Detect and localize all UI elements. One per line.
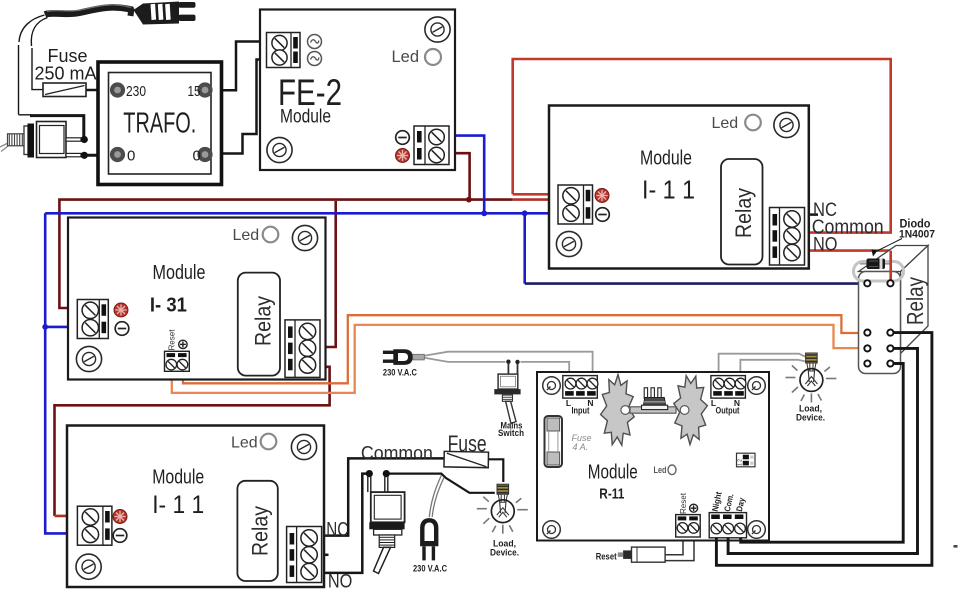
- svg-text:NC: NC: [326, 519, 348, 541]
- svg-text:250 mA.: 250 mA.: [35, 64, 102, 84]
- svg-text:4 A.: 4 A.: [573, 442, 589, 452]
- svg-text:230 V.A.C: 230 V.A.C: [383, 368, 417, 378]
- svg-text:Device.: Device.: [796, 413, 825, 423]
- svg-text:NO: NO: [328, 572, 353, 592]
- svg-text:Led: Led: [654, 465, 667, 475]
- svg-text:Led: Led: [233, 227, 260, 244]
- svg-text:TRAFO.: TRAFO.: [123, 108, 196, 140]
- svg-text:Module: Module: [280, 106, 331, 128]
- svg-text:L: L: [566, 398, 571, 408]
- svg-text:Common: Common: [361, 444, 433, 465]
- svg-text:I- 1 1: I- 1 1: [152, 491, 204, 519]
- svg-text:Led: Led: [231, 435, 258, 452]
- svg-text:15: 15: [188, 83, 201, 100]
- svg-text:Output: Output: [716, 406, 740, 416]
- svg-text:I- 31: I- 31: [150, 294, 187, 317]
- svg-text:230 V.A.C: 230 V.A.C: [413, 564, 447, 574]
- svg-text:Reset: Reset: [168, 329, 177, 351]
- svg-text:Reset: Reset: [678, 492, 688, 514]
- svg-text:Input: Input: [572, 406, 590, 416]
- svg-text:Reset: Reset: [596, 552, 617, 562]
- svg-text:0: 0: [127, 148, 135, 165]
- svg-text:1 2: 1 2: [738, 459, 744, 466]
- svg-text:NO: NO: [813, 235, 838, 256]
- svg-text:Switch: Switch: [498, 428, 524, 438]
- svg-text:Device.: Device.: [490, 548, 519, 558]
- svg-text:Module: Module: [588, 462, 638, 484]
- svg-text:Module: Module: [640, 147, 692, 170]
- svg-text:Relay: Relay: [248, 506, 273, 556]
- svg-text:230: 230: [126, 83, 146, 100]
- svg-text:Relay: Relay: [251, 296, 276, 346]
- svg-text:0: 0: [193, 148, 201, 165]
- svg-text:I- 1 1: I- 1 1: [642, 175, 695, 205]
- svg-text:Module: Module: [152, 467, 204, 489]
- svg-text:Led: Led: [392, 48, 420, 66]
- svg-text:Relay: Relay: [902, 277, 928, 325]
- svg-text:Led: Led: [712, 115, 739, 132]
- svg-text:Relay: Relay: [731, 188, 756, 238]
- svg-text:1N4007: 1N4007: [899, 229, 935, 241]
- svg-text:R-11: R-11: [599, 487, 624, 503]
- svg-text:Module: Module: [153, 261, 206, 284]
